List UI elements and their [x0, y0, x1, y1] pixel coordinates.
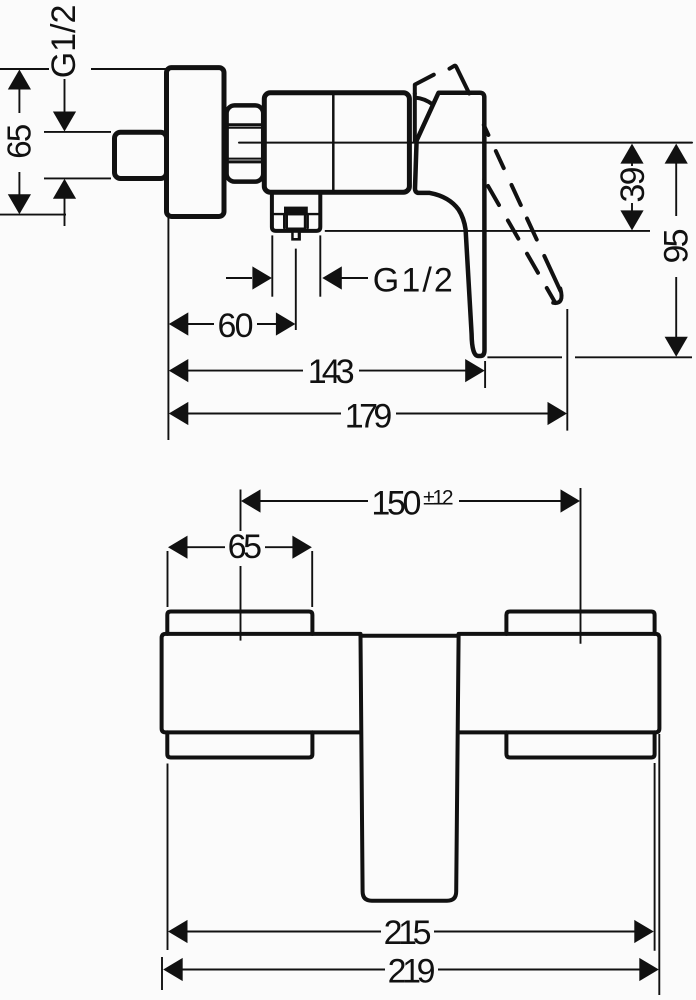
dim 65	[171, 546, 225, 548]
60 right	[276, 312, 296, 335]
valve body	[264, 93, 409, 192]
dim 60	[186, 323, 214, 325]
svg-text:219: 219	[388, 953, 436, 991]
wall bar body	[162, 634, 660, 733]
svg-text:65: 65	[228, 528, 263, 566]
svg-text:95: 95	[658, 229, 696, 264]
215 right	[634, 920, 654, 943]
inlet nipple G1/2 (offset union)	[115, 132, 167, 178]
dim G1/2 mid	[226, 277, 252, 279]
65 right	[292, 536, 312, 559]
dim 143	[185, 370, 303, 372]
raised lever tip	[553, 289, 561, 303]
arrowheads	[8, 70, 688, 426]
ext nipple bottom	[44, 177, 111, 179]
svg-text:G1/2: G1/2	[373, 262, 453, 300]
ext outlet right	[319, 235, 321, 296]
G1/2 mid left arrow (points right)	[252, 266, 272, 289]
60 left	[169, 312, 189, 335]
outlet thread collar	[284, 207, 308, 215]
dims bottom view	[162, 488, 659, 995]
150 left	[241, 489, 261, 512]
179 right	[548, 402, 568, 425]
39 down	[620, 210, 643, 230]
lever handle raised (dashed outline)	[469, 93, 560, 291]
215 left	[168, 920, 188, 943]
svg-text:179: 179	[345, 398, 393, 436]
nipple bottom up	[53, 179, 76, 199]
dim 150	[244, 500, 368, 502]
centre column: body + handle	[361, 636, 459, 901]
219 left	[163, 958, 183, 981]
dim 39	[631, 164, 633, 167]
219 right	[639, 958, 659, 981]
65 up	[8, 70, 31, 90]
left escutcheon lower	[167, 732, 312, 757]
ext line flange bottom stub	[0, 214, 66, 216]
cartridge cap strip	[413, 94, 417, 141]
ext 65 left	[167, 551, 169, 607]
ext 219 right	[658, 734, 660, 995]
labels top view	[1, 5, 696, 436]
body partition line	[332, 93, 335, 192]
ext right escutcheon centre	[580, 488, 582, 644]
lever handle raised (solid stubs near pivot)	[415, 75, 434, 94]
ext outlet bottom right	[325, 230, 650, 232]
143 left	[169, 359, 189, 382]
union nut	[225, 105, 264, 181]
65 left	[168, 536, 188, 559]
dim 65 vertical	[18, 73, 20, 113]
39 up	[620, 144, 643, 164]
right escutcheon upper	[506, 612, 654, 634]
dim 219	[165, 969, 385, 971]
svg-text:G1/2: G1/2	[45, 5, 83, 79]
179 left	[169, 402, 189, 425]
ext 215 right	[654, 763, 656, 951]
ext line flange top	[0, 68, 49, 70]
svg-text:150: 150	[371, 484, 421, 522]
ext 215 left	[167, 764, 169, 951]
pivot cap curve	[415, 98, 432, 105]
G1/2 mid right arrow (points left)	[322, 266, 342, 289]
wall flange	[167, 68, 225, 217]
ext lever tip bottom right	[487, 356, 562, 358]
ext line wall face	[167, 218, 169, 440]
left escutcheon upper	[167, 612, 312, 634]
ext outlet centre	[295, 249, 297, 330]
65 down	[8, 194, 31, 214]
G1/2 down to nipple	[53, 112, 76, 132]
shower outlet fitting	[272, 193, 320, 231]
svg-text:65: 65	[1, 124, 38, 159]
dim 179	[184, 413, 341, 415]
svg-text:143: 143	[308, 353, 355, 391]
150 right	[561, 489, 581, 512]
ext nipple top	[44, 131, 111, 133]
centerline (pipe axis)	[239, 142, 692, 144]
outlet nipple nub	[291, 231, 301, 241]
right escutcheon lower	[506, 732, 654, 757]
95 up	[665, 144, 688, 164]
svg-text:±12: ±12	[423, 486, 454, 509]
lever handle (closed position)	[415, 93, 485, 356]
svg-text:215: 215	[384, 914, 432, 952]
svg-text:60: 60	[218, 307, 254, 345]
ext outlet left	[271, 235, 273, 296]
ext 219 left	[161, 957, 163, 990]
ext lever tip	[484, 361, 486, 388]
ext left escutcheon centre	[240, 490, 242, 532]
G1/2 leader line	[64, 79, 66, 112]
dim 95	[675, 164, 677, 217]
svg-text:39: 39	[614, 167, 652, 203]
labels bottom view	[228, 484, 454, 990]
ext dashed tip	[566, 309, 568, 431]
dim 215	[170, 931, 381, 933]
95 down	[665, 337, 688, 357]
143 right	[465, 359, 485, 382]
